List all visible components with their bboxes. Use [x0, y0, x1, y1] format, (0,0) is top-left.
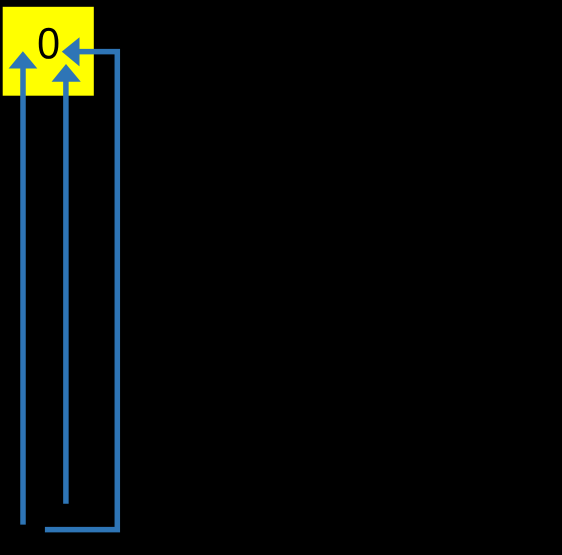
label 0 [37, 20, 60, 68]
arrowhead: middle up-arrow [52, 64, 81, 82]
wire: middle up-arrow shaft [63, 80, 69, 504]
arrowhead: elbow connector left-pointing [62, 37, 80, 66]
arrowhead: left up-arrow [9, 51, 38, 68]
wire: elbow connector (bottom horizontal, right vertical, top horizontal) [45, 52, 117, 530]
node box 0 [3, 7, 94, 96]
svg-text:0: 0 [37, 20, 60, 68]
wire: left up-arrow shaft [20, 66, 26, 525]
